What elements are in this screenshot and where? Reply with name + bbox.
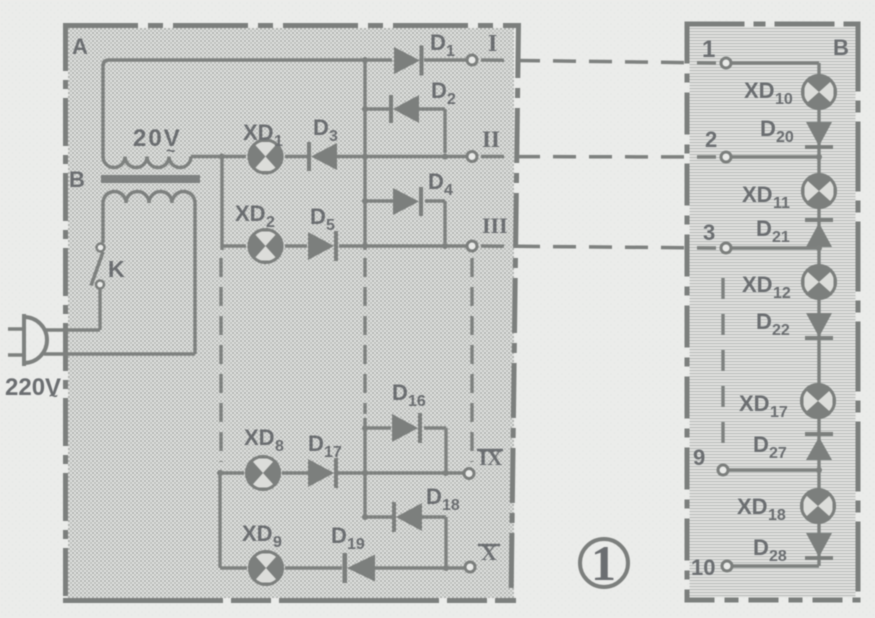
svg-text:17: 17 — [324, 444, 342, 461]
svg-text:5: 5 — [326, 217, 335, 234]
svg-text:20: 20 — [776, 129, 794, 146]
svg-text:10: 10 — [691, 555, 715, 580]
svg-text:21: 21 — [772, 229, 790, 246]
svg-text:~: ~ — [166, 143, 175, 160]
svg-text:12: 12 — [773, 285, 791, 302]
svg-text:1: 1 — [702, 36, 715, 63]
svg-text:2: 2 — [705, 127, 717, 152]
svg-text:1: 1 — [591, 535, 616, 591]
svg-text:D: D — [313, 115, 329, 140]
svg-text:27: 27 — [769, 445, 787, 462]
svg-text:28: 28 — [769, 548, 787, 565]
svg-text:B: B — [833, 35, 849, 60]
svg-text:XD: XD — [739, 391, 770, 416]
svg-text:XD: XD — [737, 494, 768, 519]
svg-text:A: A — [72, 34, 88, 59]
svg-text:XD: XD — [742, 272, 773, 297]
svg-text:XD: XD — [244, 425, 275, 450]
svg-text:2: 2 — [447, 91, 456, 108]
svg-text:D: D — [431, 78, 447, 103]
svg-text:D: D — [331, 523, 347, 548]
svg-text:XD: XD — [235, 201, 266, 226]
svg-text:8: 8 — [275, 438, 284, 455]
svg-text:I: I — [488, 31, 497, 57]
svg-text:D: D — [760, 116, 776, 141]
svg-text:D: D — [756, 216, 772, 241]
svg-text:D: D — [310, 204, 326, 229]
svg-text:XD: XD — [742, 182, 773, 207]
svg-text:II: II — [482, 127, 500, 152]
svg-text:11: 11 — [773, 195, 790, 212]
svg-text:16: 16 — [408, 393, 426, 410]
svg-text:D: D — [428, 169, 444, 194]
svg-text:D: D — [308, 431, 324, 456]
svg-text:17: 17 — [770, 404, 788, 421]
svg-text:4: 4 — [444, 182, 453, 199]
svg-text:D: D — [392, 380, 408, 405]
svg-text:D: D — [426, 484, 442, 509]
svg-text:D: D — [756, 309, 772, 334]
svg-text:B: B — [69, 167, 85, 192]
svg-text:2: 2 — [266, 214, 275, 231]
svg-text:XD: XD — [243, 120, 274, 145]
svg-text:18: 18 — [442, 497, 460, 514]
svg-text:D: D — [753, 432, 769, 457]
svg-text:~: ~ — [49, 388, 58, 405]
svg-text:3: 3 — [329, 128, 338, 145]
svg-text:18: 18 — [768, 507, 786, 524]
svg-text:19: 19 — [347, 536, 365, 553]
svg-text:1: 1 — [446, 43, 455, 60]
svg-text:III: III — [482, 213, 508, 238]
svg-text:1: 1 — [274, 133, 283, 150]
svg-text:D: D — [753, 535, 769, 560]
svg-text:22: 22 — [772, 322, 790, 339]
svg-text:K: K — [108, 256, 125, 282]
svg-text:XD: XD — [744, 78, 775, 103]
svg-text:3: 3 — [703, 220, 715, 245]
svg-text:XD: XD — [242, 521, 273, 546]
svg-text:D: D — [430, 30, 446, 55]
svg-text:9: 9 — [693, 445, 705, 470]
svg-text:9: 9 — [273, 534, 282, 551]
svg-text:10: 10 — [775, 91, 793, 108]
